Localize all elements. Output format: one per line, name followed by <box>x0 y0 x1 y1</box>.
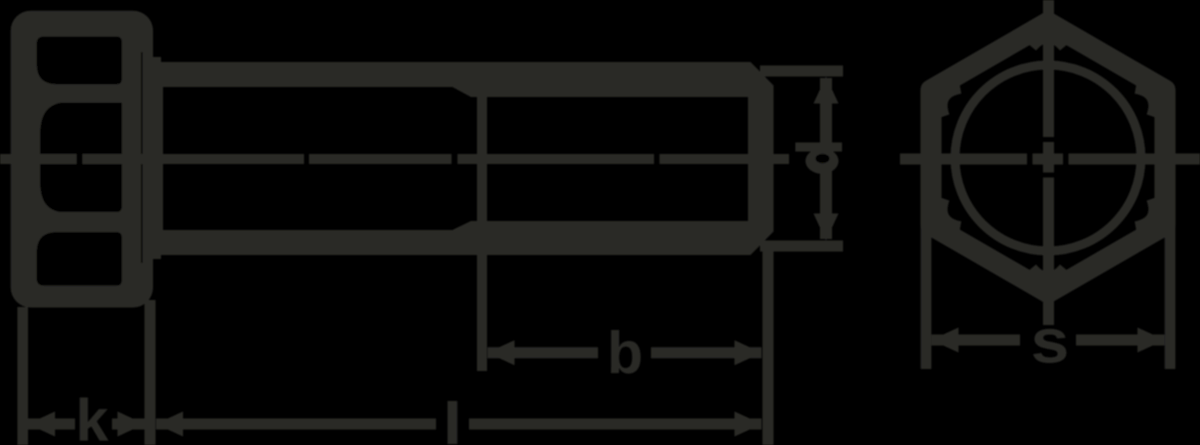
s arrow left <box>932 328 959 353</box>
svg-text:b: b <box>607 320 643 386</box>
corner arc lower-right <box>1136 199 1153 226</box>
s dimension line <box>932 335 1165 346</box>
svg-text:l: l <box>443 391 463 445</box>
l dimension line <box>156 419 762 430</box>
hex vertical centerline <box>1043 0 1054 325</box>
corner arc lower-left <box>943 199 960 226</box>
b arrow right <box>735 340 762 365</box>
k arrow left <box>28 412 55 437</box>
bolt end extension line <box>763 250 774 445</box>
l arrow right <box>735 412 762 437</box>
svg-text:s: s <box>1031 306 1070 376</box>
hex horizontal centerline <box>900 154 1200 165</box>
washer face under head <box>140 57 161 259</box>
l arrow left <box>156 412 183 437</box>
svg-text:k: k <box>76 388 109 445</box>
head top facet cell <box>37 37 122 85</box>
shank with thread (filled outline, black core) <box>161 62 774 255</box>
label d (drawn: stem + bowl, rotated 90) <box>795 143 842 174</box>
head middle facet cell <box>40 103 122 212</box>
corner arc top <box>1033 39 1064 48</box>
b arrow left <box>488 340 515 365</box>
k arrow right <box>118 412 145 437</box>
s arrow right <box>1138 328 1165 353</box>
k dimension line <box>28 419 145 430</box>
d arrow down <box>814 214 839 241</box>
hexagon (end view) <box>931 22 1165 292</box>
k extension line left <box>17 307 28 445</box>
bolt head body (filled) <box>11 11 153 308</box>
gap between head face line and edge <box>141 52 143 263</box>
d dimension line <box>820 78 832 239</box>
b dimension line <box>488 347 762 358</box>
d arrow up <box>814 77 839 104</box>
s extension line right <box>1165 226 1176 369</box>
d extension line bottom <box>760 241 843 252</box>
corner arc bottom <box>1033 267 1064 276</box>
head bottom facet cell <box>37 232 122 286</box>
side view centerline <box>0 154 789 164</box>
d extension line top <box>760 66 843 77</box>
k/l extension line right <box>145 300 156 445</box>
chamfer circle <box>955 65 1141 251</box>
corner arc upper-right <box>1136 89 1153 116</box>
s extension line left <box>921 226 932 369</box>
b extension line (thread start, through bolt) <box>477 97 487 371</box>
corner arc upper-left <box>943 89 960 116</box>
